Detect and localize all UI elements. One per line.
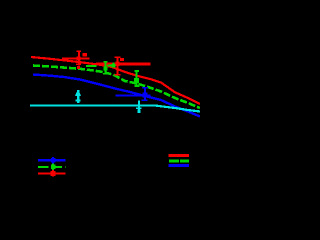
- legend right: red line: [169, 154, 189, 157]
- red data point B horizontal error bar: [96, 63, 151, 66]
- green limit point with left horizontal bar (x=113): [86, 63, 115, 68]
- green data point 1 (x=105.5): [103, 61, 108, 75]
- blue data point (x=145): [116, 87, 151, 101]
- cyan upper-limit up arrow (x=77.8): [75, 90, 81, 103]
- legend right: green dashed line: [169, 159, 179, 162]
- legend left: blue entry: [38, 157, 66, 164]
- cyan lower marker (x=138.8): [136, 101, 142, 114]
- legend right: blue line: [169, 164, 190, 167]
- legend left: green entry (dashed): [38, 163, 66, 170]
- green model curve (dashed): [33, 66, 200, 109]
- red data point B (x=117.5): [114, 57, 124, 76]
- legend left: red entry: [38, 170, 66, 177]
- green data point 2 (x=136.5): [134, 70, 140, 87]
- red small square marker (x=84.8): [83, 53, 87, 57]
- blue model curve: [33, 75, 200, 117]
- red data point A (x=78.5): [62, 51, 90, 69]
- red model curve: [31, 57, 200, 104]
- cyan sensitivity line: [30, 106, 200, 112]
